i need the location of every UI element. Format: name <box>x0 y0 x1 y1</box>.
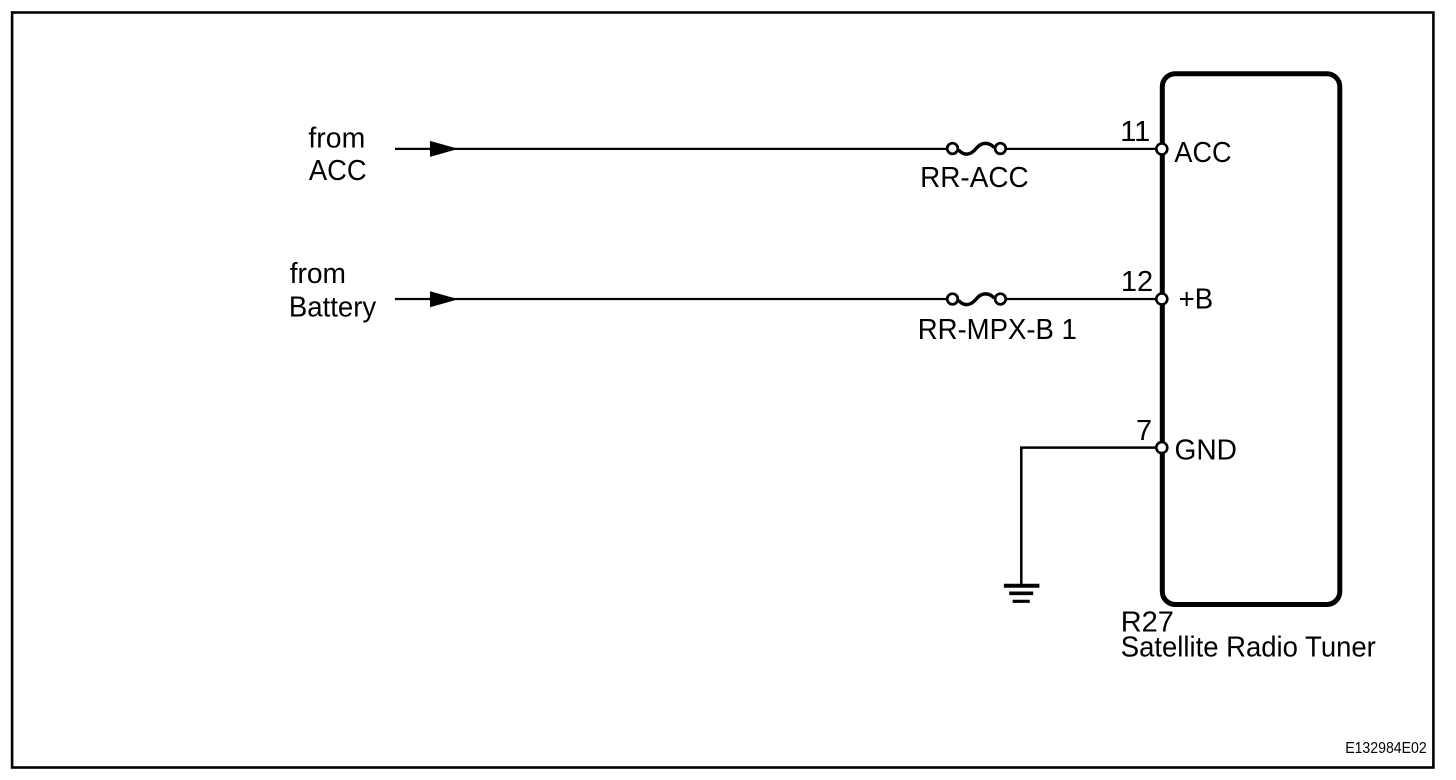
fuse RR-ACC <box>947 143 1006 154</box>
pin 11 terminal <box>1156 144 1167 155</box>
arrowhead on Battery wire <box>430 291 458 307</box>
ground <box>1004 586 1040 602</box>
node: from ACC label <box>308 123 366 187</box>
svg-text:11: 11 <box>1120 116 1150 148</box>
svg-text:RR-MPX-B 1: RR-MPX-B 1 <box>918 314 1077 346</box>
svg-text:from: from <box>308 123 365 155</box>
wire: ground run to pin 7 <box>1021 448 1156 585</box>
svg-text:E132984E02: E132984E02 <box>1345 740 1427 757</box>
fuse RR-MPX-B 1 <box>947 294 1006 305</box>
svg-text:Satellite Radio Tuner: Satellite Radio Tuner <box>1121 631 1376 663</box>
wire: Battery feed to fuse RR-MPX-B <box>395 298 946 300</box>
node: from Battery label <box>289 258 377 324</box>
arrowhead on ACC wire <box>430 141 458 157</box>
wire: fuse RR-MPX-B to pin 12 <box>1006 298 1156 300</box>
svg-text:7: 7 <box>1136 415 1152 447</box>
svg-text:+B: +B <box>1179 284 1214 316</box>
svg-text:RR-ACC: RR-ACC <box>920 162 1029 194</box>
svg-text:ACC: ACC <box>309 155 367 187</box>
svg-text:12: 12 <box>1121 266 1153 298</box>
svg-text:GND: GND <box>1175 435 1238 467</box>
wire: fuse RR-ACC to pin 11 <box>1006 148 1156 150</box>
component R27 Satellite Radio Tuner (box) <box>1162 74 1340 605</box>
pin 7 terminal <box>1156 442 1167 453</box>
svg-text:from: from <box>290 258 346 290</box>
pin 12 terminal <box>1156 294 1167 305</box>
svg-text:ACC: ACC <box>1174 137 1231 169</box>
wire: ACC feed to fuse RR-ACC <box>395 148 946 150</box>
svg-text:Battery: Battery <box>289 292 377 324</box>
